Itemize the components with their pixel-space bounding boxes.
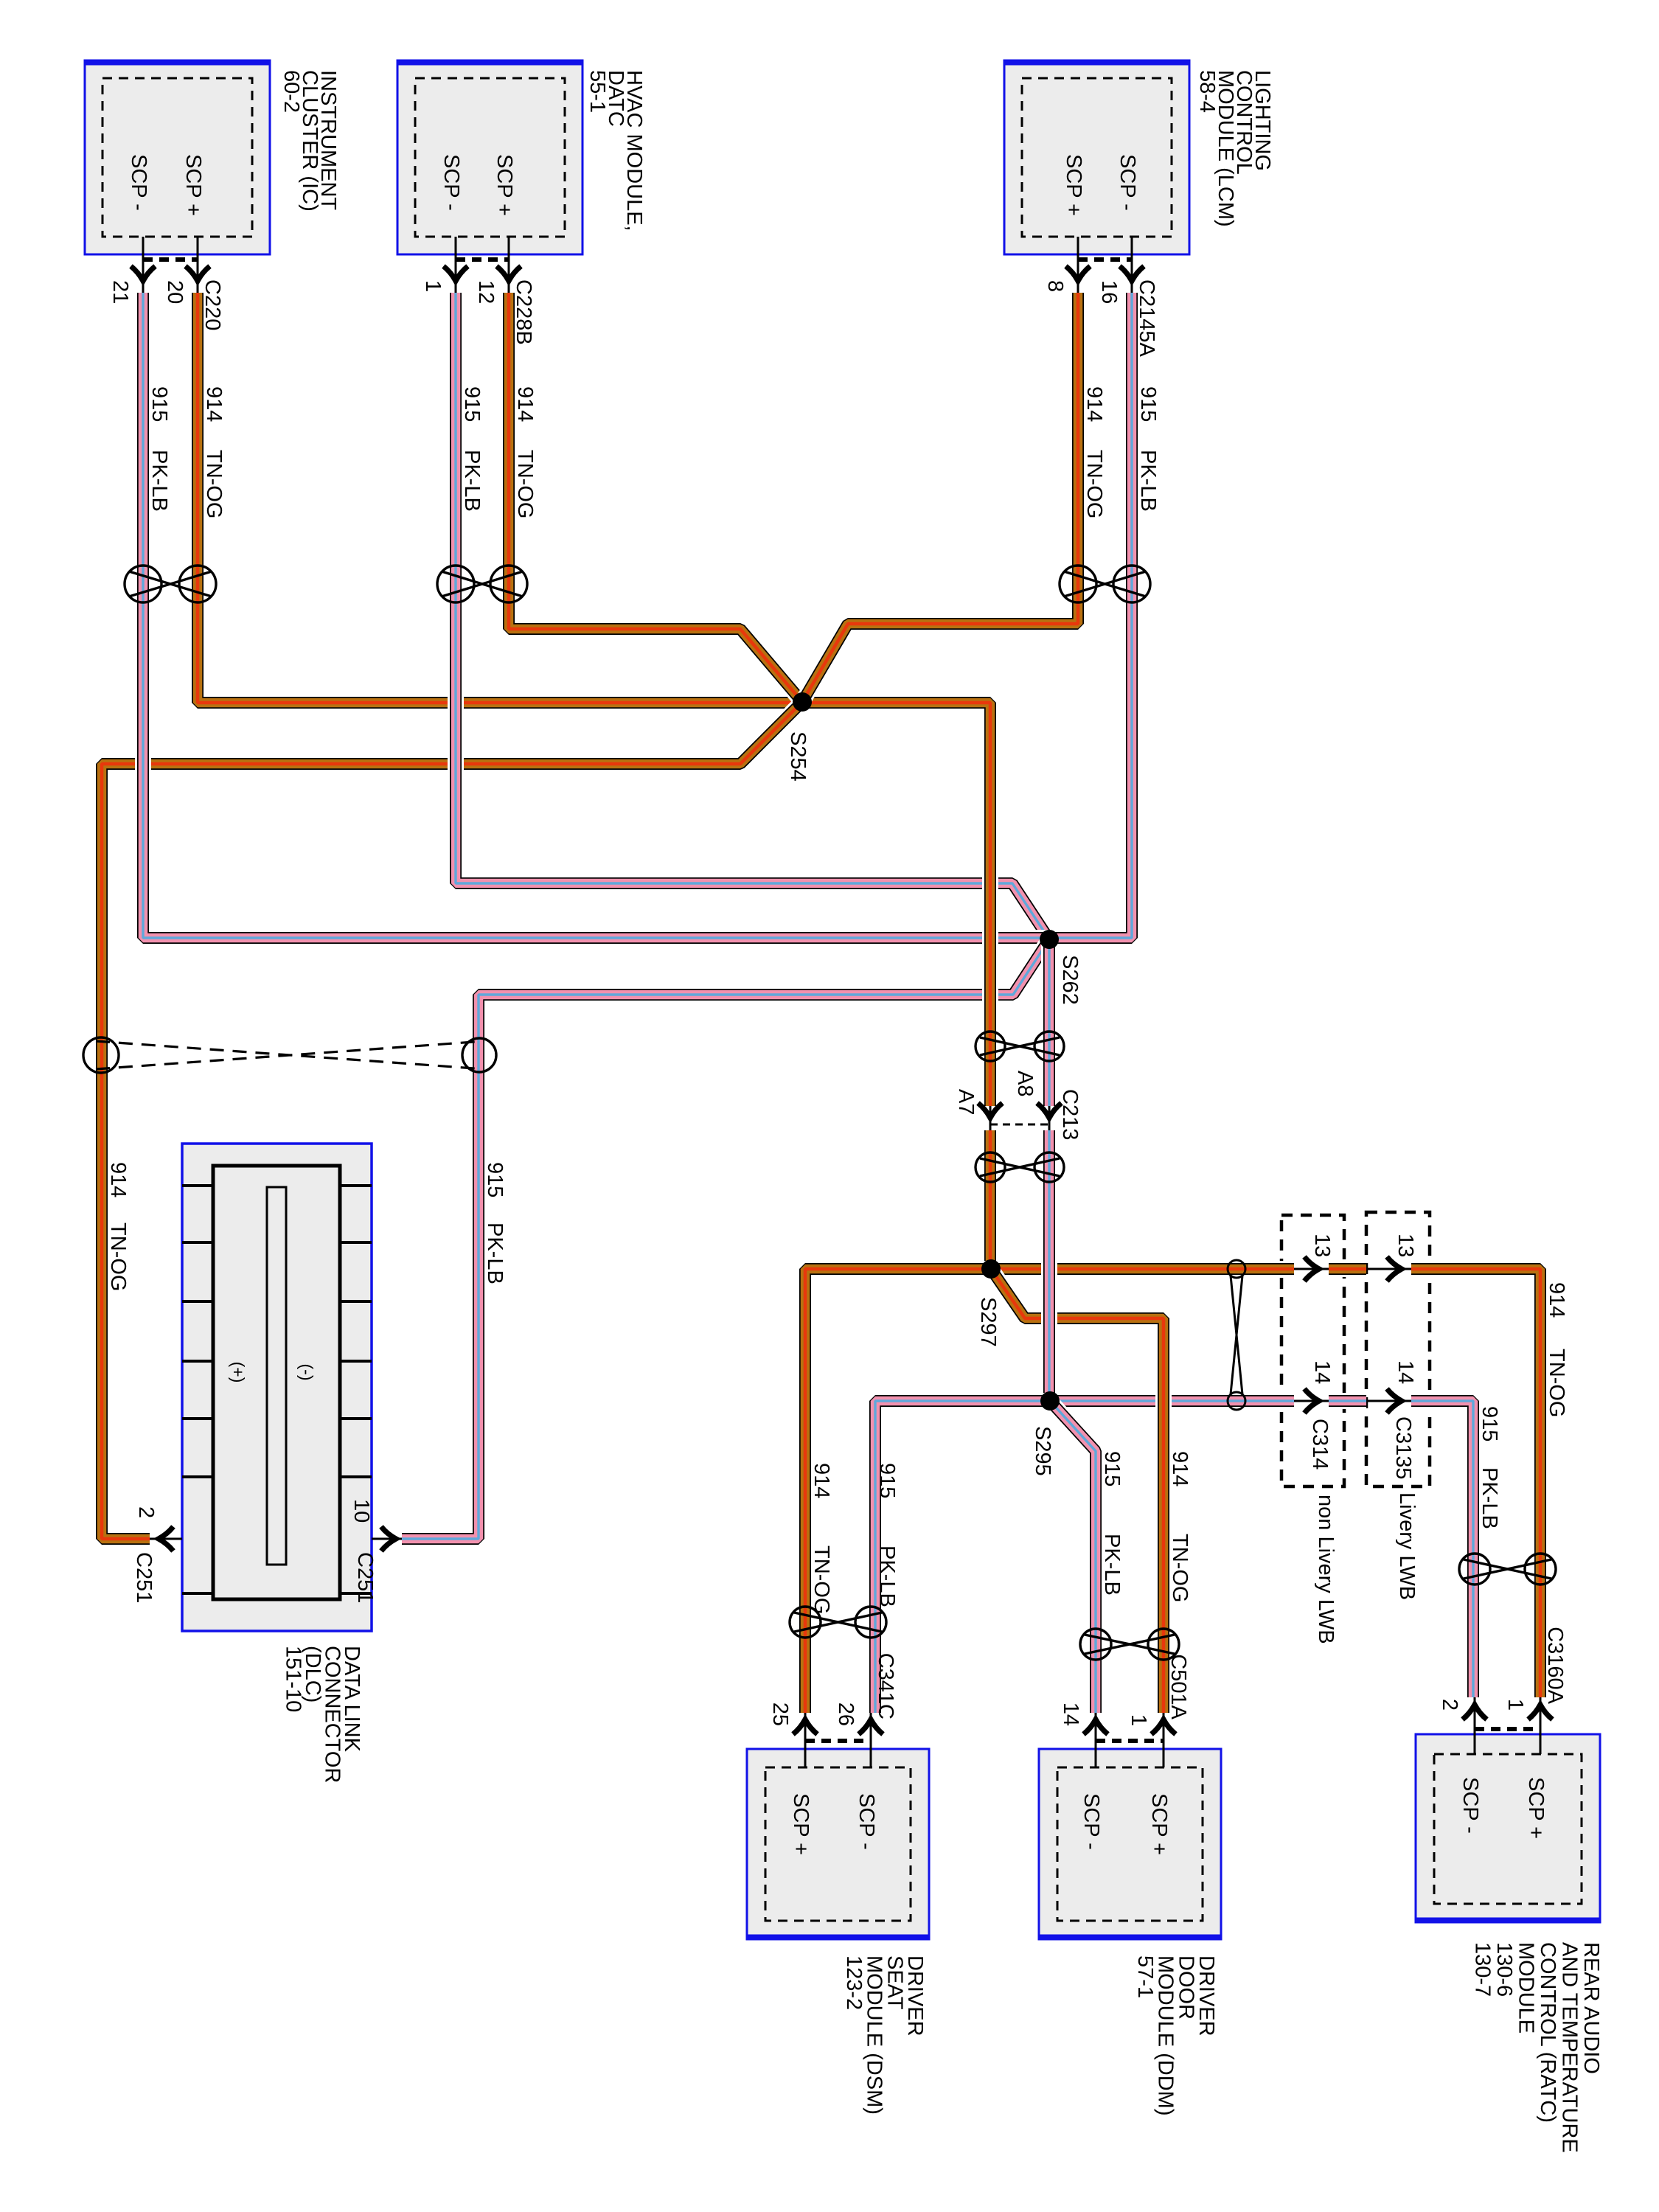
svg-text:914: 914 [513,386,537,422]
svg-text:914: 914 [810,1463,833,1498]
svg-text:TN-OG: TN-OG [202,450,226,518]
svg-text:PK-LB: PK-LB [483,1222,507,1284]
svg-text:57-1: 57-1 [1133,1955,1157,1998]
svg-text:A8: A8 [1013,1071,1037,1096]
svg-text:TN-OG: TN-OG [1168,1534,1192,1602]
svg-text:C3135: C3135 [1391,1416,1415,1479]
svg-text:130-7: 130-7 [1471,1942,1495,1997]
svg-text:915: 915 [483,1162,507,1197]
svg-text:55-1: 55-1 [585,70,609,113]
svg-text:915: 915 [460,386,484,422]
svg-text:SCP +: SCP + [493,154,516,216]
svg-text:TN-OG: TN-OG [513,450,537,518]
svg-text:PK-LB: PK-LB [1100,1534,1124,1596]
svg-text:SCP -: SCP - [1116,154,1139,211]
svg-text:914: 914 [1082,386,1106,422]
svg-text:C314: C314 [1308,1419,1332,1470]
svg-text:915: 915 [1478,1406,1501,1441]
svg-text:C341C: C341C [874,1653,897,1719]
svg-text:(+): (+) [229,1362,248,1383]
svg-text:14: 14 [1394,1360,1417,1384]
svg-text:915: 915 [875,1463,899,1498]
svg-text:PK-LB: PK-LB [1136,450,1160,512]
svg-text:14: 14 [1059,1703,1082,1726]
svg-text:TN-OG: TN-OG [810,1545,833,1614]
svg-text:A7: A7 [954,1089,978,1115]
svg-text:non Livery LWB: non Livery LWB [1314,1495,1338,1644]
svg-text:13: 13 [1394,1234,1417,1257]
svg-text:PK-LB: PK-LB [875,1545,899,1607]
svg-text:13: 13 [1310,1234,1334,1257]
svg-text:MODULE: MODULE [1514,1942,1538,2034]
svg-text:8: 8 [1043,280,1067,292]
svg-text:SCP +: SCP + [1524,1777,1548,1839]
svg-text:915: 915 [1100,1451,1124,1486]
svg-text:SCP +: SCP + [789,1793,813,1855]
svg-text:C251: C251 [132,1552,156,1603]
svg-text:TN-OG: TN-OG [106,1222,130,1291]
svg-text:C251: C251 [353,1552,377,1603]
svg-text:2: 2 [1438,1699,1461,1711]
svg-text:21: 21 [108,280,132,304]
svg-text:914: 914 [202,386,226,422]
svg-text:S297: S297 [976,1297,1000,1347]
svg-text:SCP -: SCP - [855,1793,878,1850]
svg-text:1: 1 [421,280,445,292]
svg-text:914: 914 [1545,1282,1568,1318]
svg-text:1: 1 [1127,1714,1150,1726]
svg-text:10: 10 [349,1499,373,1523]
svg-text:PK-LB: PK-LB [1478,1467,1501,1529]
svg-text:130-6: 130-6 [1492,1942,1516,1997]
svg-text:914: 914 [1168,1451,1192,1486]
svg-text:(-): (-) [297,1364,316,1381]
svg-text:914: 914 [106,1162,130,1197]
svg-text:SCP -: SCP - [439,154,463,211]
svg-text:S295: S295 [1031,1426,1054,1476]
svg-text:58-4: 58-4 [1195,70,1219,113]
svg-text:12: 12 [474,280,498,304]
svg-text:SCP +: SCP + [1147,1793,1171,1855]
svg-text:S262: S262 [1058,955,1082,1005]
svg-text:PK-LB: PK-LB [460,450,484,512]
svg-text:26: 26 [834,1703,858,1726]
svg-text:25: 25 [768,1703,792,1726]
svg-text:151-10: 151-10 [282,1646,305,1712]
svg-text:20: 20 [163,280,187,304]
svg-text:1: 1 [1503,1699,1527,1711]
svg-text:123-2: 123-2 [842,1955,866,2010]
svg-text:C2145A: C2145A [1135,279,1158,357]
svg-text:2: 2 [134,1506,158,1518]
svg-text:Livery LWB: Livery LWB [1395,1492,1419,1600]
svg-text:TN-OG: TN-OG [1545,1349,1568,1417]
svg-text:SCP -: SCP - [1079,1793,1103,1850]
svg-text:C220: C220 [201,279,224,330]
svg-text:915: 915 [1136,386,1160,422]
svg-text:SCP -: SCP - [1458,1777,1482,1834]
svg-text:CONTROL (RATC): CONTROL (RATC) [1536,1942,1559,2123]
svg-text:REAR AUDIO: REAR AUDIO [1579,1942,1603,2074]
svg-text:SCP -: SCP - [127,154,150,211]
svg-text:AND TEMPERATURE: AND TEMPERATURE [1558,1942,1582,2153]
svg-text:C3160A: C3160A [1543,1627,1567,1704]
svg-text:16: 16 [1097,280,1121,304]
svg-text:S254: S254 [786,731,810,782]
svg-text:C228B: C228B [512,279,535,345]
svg-text:TN-OG: TN-OG [1082,450,1106,518]
svg-text:915: 915 [147,386,171,422]
svg-text:PK-LB: PK-LB [147,450,171,512]
svg-text:SCP +: SCP + [1062,154,1085,216]
svg-text:60-2: 60-2 [279,70,303,113]
svg-text:C213: C213 [1058,1089,1082,1140]
svg-text:SCP +: SCP + [181,154,205,216]
svg-text:14: 14 [1310,1360,1334,1384]
svg-text:C501A: C501A [1166,1654,1190,1719]
